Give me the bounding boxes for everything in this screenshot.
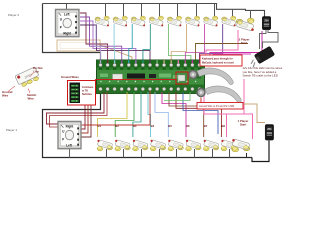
svg-text:Start: Start	[240, 123, 246, 127]
encoder board U1	[97, 60, 205, 94]
coin switch 2 (25c)	[262, 17, 270, 30]
wire ground stub 2P start	[250, 10, 252, 19]
wire button P2	[96, 24, 101, 62]
pushbutton 2P start	[236, 18, 254, 31]
wire button P2	[171, 24, 186, 62]
wire joystick P1 signal	[81, 92, 88, 133]
pushbutton B3 (P1)	[133, 140, 148, 151]
pushbutton 1P start	[232, 139, 250, 152]
svg-text:Start: Start	[241, 41, 247, 45]
wire button P1	[162, 92, 186, 137]
wire ground stub	[105, 4, 107, 18]
pushbutton B6 (P1)	[186, 140, 201, 151]
annotation keyboard passthrough	[200, 55, 242, 66]
svg-text:Right: Right	[63, 31, 72, 35]
svg-text:25¢: 25¢	[267, 127, 272, 131]
svg-text:B3: B3	[133, 124, 137, 128]
wire button P1 blue	[183, 92, 218, 134]
wire ground stub	[123, 149, 125, 158]
svg-text:Keyboard pass through for: Keyboard pass through for	[202, 58, 233, 61]
wire ground stub	[214, 4, 216, 18]
annotation ground wire to P1 P2	[197, 103, 243, 110]
joystick P1	[58, 122, 81, 149]
svg-text:Continues: Continues	[82, 86, 94, 89]
wire accessory brown	[196, 44, 249, 63]
wire button P1	[98, 92, 128, 137]
pushbutton SW7 (P2)	[204, 16, 218, 26]
wire ground stub	[159, 4, 161, 18]
wire ground stub	[229, 149, 231, 158]
pushbutton B7 (P1)	[203, 140, 218, 151]
power plug J1	[248, 46, 275, 67]
svg-text:MaCade, keyboard not used: MaCade, keyboard not used	[202, 61, 234, 64]
wire red annotation line	[95, 79, 176, 81]
wire button P1	[169, 92, 204, 137]
wire ground stub	[194, 149, 196, 158]
wire joystick P1 loop	[47, 92, 105, 124]
annotation terminal strip TB	[68, 81, 96, 106]
wire ground stub	[123, 4, 125, 18]
pushbutton SW6 (P2)	[185, 16, 199, 26]
svg-text:Switch TB outlet to the LED: Switch TB outlet to the LED	[243, 73, 278, 77]
wire coin switch 1	[201, 91, 265, 123]
wire button P2	[168, 24, 191, 62]
wire coin to plug	[260, 30, 267, 49]
pushbutton SW1 (P2)	[95, 16, 109, 26]
coin switch 1 (25c)	[265, 125, 273, 141]
wire 2P start	[206, 30, 238, 62]
wire bundle inner	[60, 43, 97, 49]
pushbutton SW8 (P2)	[222, 16, 236, 26]
svg-text:Player 2: Player 2	[8, 13, 19, 17]
wire joystick P2 signal	[80, 13, 108, 62]
wire joystick tan	[100, 45, 132, 62]
wire ground stub	[177, 4, 179, 18]
wire ground stub	[232, 9, 234, 17]
wire ground stub joystick P1	[69, 149, 71, 158]
wire ground stub	[106, 149, 108, 158]
pushbutton B1 (P1)	[97, 140, 112, 151]
svg-text:25¢: 25¢	[264, 19, 269, 23]
wire ground stub	[212, 149, 214, 158]
wire bundle joystick P2 loop	[57, 40, 100, 51]
svg-text:B5: B5	[168, 124, 172, 128]
wire accessory	[164, 92, 190, 101]
wire joystick P2 signal	[80, 17, 122, 62]
wire button P1	[115, 92, 134, 137]
wire 1P start	[204, 92, 253, 139]
pushbutton B4 (P1)	[150, 140, 165, 151]
pushbutton SW5 (P2)	[167, 16, 181, 26]
pushbutton B8 (P1)	[221, 140, 236, 151]
wire ground stub	[159, 149, 161, 158]
ground daisy-chain wire photo	[189, 68, 241, 102]
svg-text:Ground Wire to P1 and P2 in MM: Ground Wire to P1 and P2 in MM	[199, 105, 234, 108]
pushbutton SW3 (P2)	[131, 16, 145, 26]
wire ground from bus to encoder	[43, 4, 101, 63]
svg-text:Use: Use	[34, 69, 40, 73]
wire ground bus P1	[43, 93, 253, 158]
svg-text:B4: B4	[151, 124, 155, 128]
svg-text:B2: B2	[115, 124, 119, 128]
wire button P2	[199, 24, 222, 62]
wire coin switch 2	[210, 31, 262, 62]
wire joystick P1 loop 2	[50, 92, 108, 127]
svg-text:Player 1: Player 1	[6, 128, 17, 132]
wire button P1	[148, 92, 151, 137]
svg-text:B8: B8	[221, 124, 225, 128]
wire joystick P2 signal	[80, 25, 150, 62]
wire coin loop to plug	[263, 30, 279, 48]
svg-text:to TB: to TB	[82, 90, 88, 93]
annotation pointer	[200, 98, 202, 103]
wire joystick P2 signal	[80, 21, 136, 62]
wire button P2	[129, 24, 132, 62]
svg-text:B1: B1	[98, 124, 102, 128]
wire ground stub 1P start	[246, 153, 248, 158]
wire ground stub	[141, 149, 143, 158]
svg-text:Wire: Wire	[28, 96, 35, 100]
pushbutton B2 (P1)	[115, 140, 130, 151]
svg-text:Wire: Wire	[2, 93, 9, 97]
wire joystick P1 signal	[81, 92, 91, 137]
wire ground bus P2	[43, 4, 265, 18]
wire button P2	[143, 24, 150, 62]
wire joystick P1 signal	[81, 92, 85, 129]
wire button P2	[113, 24, 116, 62]
annotation box on encoder	[176, 72, 188, 84]
wire ground stub	[196, 4, 198, 18]
wire button P2	[185, 24, 204, 62]
wire button P1	[176, 92, 221, 137]
pushbutton SW2 (P2)	[113, 16, 127, 26]
wire coin switch ground	[252, 141, 269, 162]
wire button P1	[133, 92, 141, 137]
wire button P1 red	[78, 91, 150, 132]
pushbutton B5 (P1)	[168, 140, 183, 151]
wire 1P start feed	[243, 79, 245, 114]
svg-text:Left: Left	[64, 12, 70, 16]
wire ground stub	[176, 149, 178, 158]
svg-text:Ground Wires: Ground Wires	[61, 75, 79, 79]
svg-text:Switches: Switches	[82, 93, 93, 96]
wire button P1	[155, 92, 168, 137]
svg-text:Left: Left	[66, 143, 72, 147]
svg-text:B7: B7	[204, 124, 208, 128]
wire ground stub	[141, 4, 143, 18]
svg-text:Right: Right	[66, 124, 75, 128]
wire 1P start branch	[226, 114, 228, 137]
microswitch (detail)	[15, 67, 41, 88]
wire ground stub joystick P2	[66, 4, 68, 11]
joystick P2	[56, 10, 79, 37]
pushbutton SW4 (P2)	[149, 16, 163, 26]
wire LED power	[213, 54, 251, 60]
svg-text:B6: B6	[186, 124, 190, 128]
